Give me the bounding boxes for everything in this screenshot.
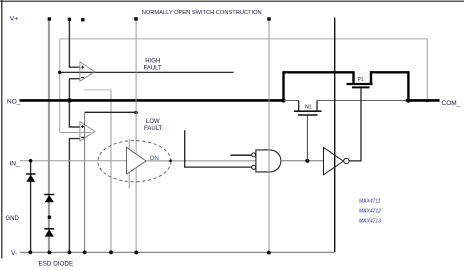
wire NO line thick (20, 99, 285, 102)
node rail drop on COM (426, 99, 429, 102)
ESD diode D1 (26, 174, 36, 182)
svg-text:FAULT: FAULT (144, 65, 163, 71)
node P1 drain on COM (407, 99, 411, 103)
wire vertical N (rail to COM) (426, 39, 428, 101)
svg-text:NORMALLY OPEN SWITCH CONSTRUCT: NORMALLY OPEN SWITCH CONSTRUCTION (142, 10, 262, 16)
wire gate top input (230, 154, 251, 156)
U3 input bubble top (252, 153, 256, 157)
wire E horizontal (85, 111, 136, 113)
svg-text:COM_: COM_ (442, 100, 461, 107)
wire C2 (U1 inverting input to NO line) (69, 79, 80, 100)
wire high-fault output (60, 71, 234, 73)
wire vertical F (135, 21, 137, 253)
P1 drain path (371, 72, 408, 101)
wire C3 (NO line to U2 noninverting input) (69, 101, 80, 127)
ESD diode D3 (44, 229, 54, 237)
border frame left (1, 0, 3, 259)
node rail x111 (109, 251, 113, 255)
node rail x69 (68, 251, 72, 255)
node rail x30 (28, 251, 32, 255)
wire I (low fault to gate input) (185, 130, 252, 167)
wire K (N1 gate lead) (306, 115, 308, 161)
node NO/transistors (281, 98, 285, 102)
node rail x84 (83, 251, 87, 255)
wire C4 (U2 inverting input to V- rail) (69, 139, 80, 253)
node IN/ESD diode (29, 159, 33, 163)
U1 plus sign (81, 66, 84, 69)
driver buffer triangle (127, 147, 147, 174)
wire faint (U1 aux to G) (84, 89, 111, 91)
dashed ellipse (switch driver) (98, 141, 171, 182)
svg-text:MAX4713: MAX4713 (359, 219, 381, 225)
node on COM sense at U1 (58, 71, 61, 74)
op-amp U1 (high fault comparator) (80, 62, 95, 81)
node NO/comparators (67, 98, 72, 103)
svg-text:FAULT: FAULT (144, 126, 163, 132)
ESD diode D2 (44, 195, 54, 203)
transistor P1 source path (284, 72, 354, 100)
transistor N1 (294, 101, 322, 116)
wire IN line right (driver output) (146, 160, 256, 162)
svg-text:N1: N1 (305, 104, 312, 110)
wire V- rail (20, 251, 335, 253)
wire IN line left (20, 160, 127, 162)
wire M (inverter output to P1 gate) (349, 88, 361, 161)
svg-text:V-: V- (11, 250, 17, 257)
wire vertical L (V- to top) (334, 18, 336, 253)
terminal square 1 (48, 17, 51, 20)
wire U2 mid input from COM sense (60, 132, 91, 134)
wire top rail (60, 38, 428, 40)
svg-text:GND: GND (6, 216, 20, 222)
svg-text:NO_: NO_ (7, 99, 21, 106)
U4 output bubble (344, 158, 349, 163)
wire vertical A (V+ branch with ESD diodes) (48, 21, 50, 253)
node gate output / N1 gate (305, 159, 309, 163)
U3 input bubble bottom (252, 165, 256, 169)
wire NO thin segment right of N1 (317, 100, 406, 102)
terminal square 2 (68, 18, 71, 21)
wire C1 (V+ to U1 noninverting input) (69, 21, 80, 67)
wire COM stub thick (406, 99, 440, 102)
terminal square 4 (134, 17, 137, 20)
op-amp U2 (low fault comparator) (80, 122, 95, 141)
border frame top (0, 0, 464, 2)
node rail x49 (48, 251, 52, 255)
node rail x269 (267, 251, 271, 255)
wire stub H through driver (128, 139, 130, 189)
svg-text:IN_: IN_ (10, 160, 21, 167)
wire vertical J (268, 21, 270, 253)
AND gate U3 (256, 150, 281, 172)
node on driver output (169, 160, 172, 163)
svg-text:ESD DIODE: ESD DIODE (39, 261, 74, 268)
wire gate output (281, 160, 324, 162)
wire NO thin segment left of N1 (284, 100, 299, 102)
svg-text:MAX4712: MAX4712 (359, 209, 381, 215)
terminal square 3 (81, 18, 84, 21)
svg-text:HIGH: HIGH (145, 58, 160, 64)
terminal square 5 (267, 17, 270, 20)
node E/F junction (134, 111, 138, 115)
node GND on A (48, 215, 52, 219)
U1 minus sign (81, 77, 84, 79)
svg-text:MAX4711: MAX4711 (359, 199, 381, 205)
U2 plus sign (81, 125, 84, 128)
node rail x136 (134, 251, 138, 255)
inverter U4 (324, 148, 344, 175)
svg-text:LOW: LOW (146, 119, 160, 125)
svg-text:P1: P1 (358, 77, 365, 83)
P1 channel bar (347, 83, 373, 85)
wire vertical P (IN ESD) (30, 161, 32, 253)
svg-text:V+: V+ (10, 16, 19, 23)
U2 minus sign (81, 136, 84, 138)
wire vertical B (COM sense) (59, 39, 61, 133)
wire vertical G (110, 90, 112, 252)
wire E vertical (84, 112, 86, 252)
P1 gate bar (352, 86, 370, 88)
